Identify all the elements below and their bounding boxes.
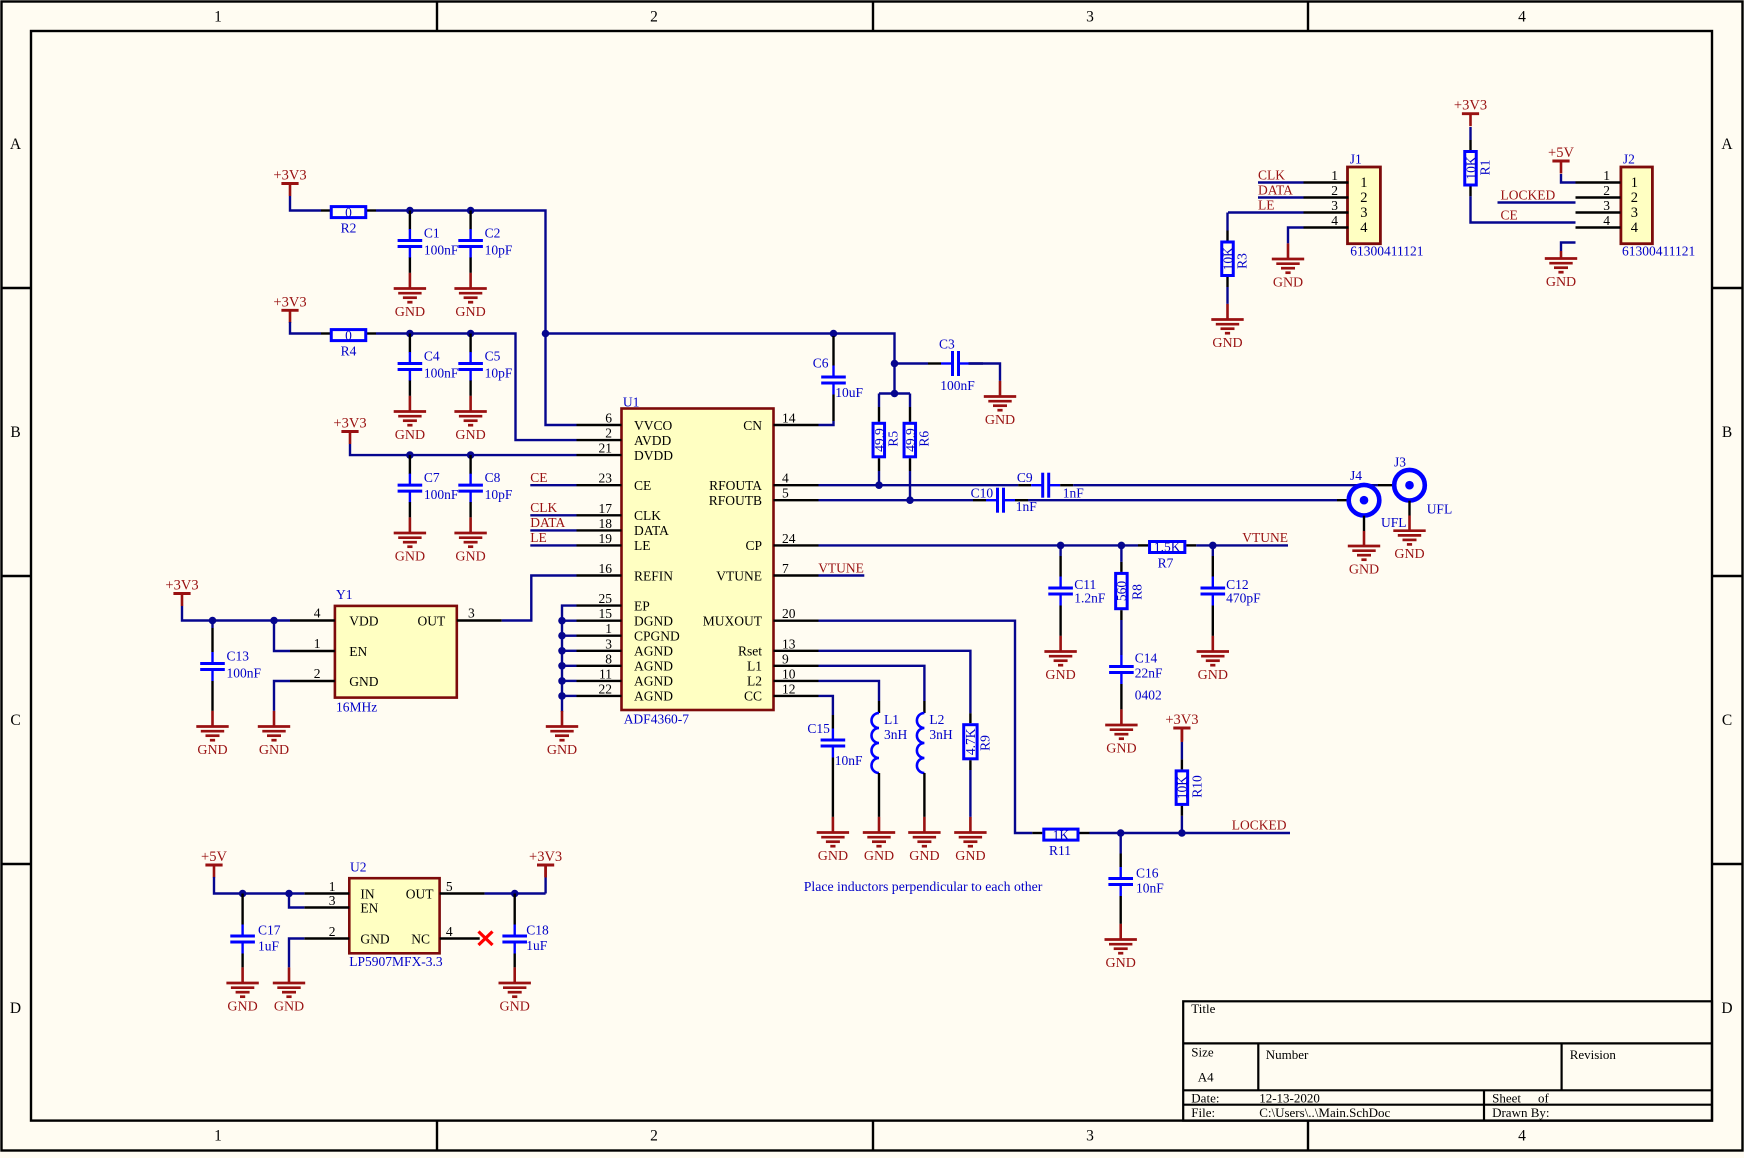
svg-text:10K: 10K bbox=[1220, 247, 1235, 271]
svg-text:11: 11 bbox=[599, 666, 612, 681]
svg-text:GND: GND bbox=[455, 549, 485, 564]
svg-text:File:: File: bbox=[1191, 1105, 1215, 1120]
svg-text:CP: CP bbox=[745, 538, 762, 553]
svg-text:10K: 10K bbox=[1463, 156, 1478, 180]
svg-text:4: 4 bbox=[446, 924, 453, 939]
svg-text:A4: A4 bbox=[1198, 1070, 1214, 1085]
svg-text:C4: C4 bbox=[424, 349, 440, 364]
svg-text:GND: GND bbox=[349, 674, 378, 689]
svg-text:9: 9 bbox=[782, 651, 789, 666]
svg-text:100nF: 100nF bbox=[424, 366, 459, 381]
svg-text:J2: J2 bbox=[1623, 152, 1635, 167]
svg-text:C5: C5 bbox=[485, 349, 501, 364]
svg-text:GND: GND bbox=[985, 413, 1015, 428]
svg-text:1nF: 1nF bbox=[1063, 485, 1085, 500]
svg-text:GND: GND bbox=[1106, 956, 1136, 971]
svg-text:2: 2 bbox=[1360, 190, 1367, 206]
svg-text:1: 1 bbox=[1331, 168, 1338, 183]
svg-text:C: C bbox=[1722, 712, 1732, 729]
svg-text:DGND: DGND bbox=[634, 614, 673, 629]
svg-text:12-13-2020: 12-13-2020 bbox=[1259, 1091, 1320, 1106]
svg-text:J1: J1 bbox=[1350, 152, 1362, 167]
svg-text:R11: R11 bbox=[1049, 843, 1071, 858]
svg-text:C1: C1 bbox=[424, 226, 440, 241]
svg-text:R1: R1 bbox=[1478, 160, 1493, 176]
svg-text:1.5K: 1.5K bbox=[1154, 540, 1181, 555]
svg-text:18: 18 bbox=[599, 516, 613, 531]
svg-text:C14: C14 bbox=[1135, 651, 1158, 666]
svg-text:AGND: AGND bbox=[634, 659, 673, 674]
svg-text:4: 4 bbox=[1603, 213, 1610, 228]
svg-text:GND: GND bbox=[455, 305, 485, 320]
svg-text:12: 12 bbox=[782, 681, 796, 696]
svg-text:2: 2 bbox=[329, 924, 336, 939]
svg-text:560: 560 bbox=[1114, 581, 1129, 602]
svg-text:LE: LE bbox=[530, 530, 547, 545]
svg-text:VTUNE: VTUNE bbox=[716, 568, 762, 583]
svg-text:3nH: 3nH bbox=[884, 727, 908, 742]
svg-text:D: D bbox=[1721, 1000, 1732, 1017]
svg-text:L2: L2 bbox=[929, 712, 944, 727]
svg-text:6: 6 bbox=[605, 411, 612, 426]
svg-text:GND: GND bbox=[1045, 668, 1075, 683]
svg-text:VVCO: VVCO bbox=[634, 418, 673, 433]
svg-text:NC: NC bbox=[411, 931, 430, 946]
svg-text:R5: R5 bbox=[886, 431, 901, 447]
svg-text:CE: CE bbox=[530, 470, 547, 485]
svg-text:5: 5 bbox=[782, 486, 789, 501]
svg-text:Revision: Revision bbox=[1570, 1047, 1617, 1062]
svg-text:100nF: 100nF bbox=[227, 666, 262, 681]
svg-text:100nF: 100nF bbox=[940, 378, 975, 393]
svg-text:4: 4 bbox=[1360, 220, 1368, 236]
svg-text:LOCKED: LOCKED bbox=[1501, 187, 1556, 202]
svg-text:GND: GND bbox=[864, 849, 894, 864]
svg-text:4: 4 bbox=[1518, 1128, 1526, 1145]
svg-text:GND: GND bbox=[227, 999, 257, 1014]
svg-text:R9: R9 bbox=[978, 735, 993, 751]
svg-text:GND: GND bbox=[909, 849, 939, 864]
svg-text:22nF: 22nF bbox=[1135, 666, 1163, 681]
svg-text:GND: GND bbox=[395, 549, 425, 564]
svg-text:AGND: AGND bbox=[634, 644, 673, 659]
svg-text:C: C bbox=[10, 712, 20, 729]
svg-text:3: 3 bbox=[1631, 205, 1638, 221]
svg-text:CLK: CLK bbox=[634, 508, 661, 523]
svg-text:CE: CE bbox=[634, 478, 651, 493]
svg-text:10nF: 10nF bbox=[835, 753, 863, 768]
svg-text:CC: CC bbox=[744, 689, 762, 704]
svg-text:MUXOUT: MUXOUT bbox=[703, 614, 763, 629]
svg-text:3: 3 bbox=[1086, 9, 1094, 26]
svg-text:C6: C6 bbox=[813, 356, 829, 371]
svg-text:1: 1 bbox=[214, 9, 222, 26]
svg-text:LE: LE bbox=[634, 538, 651, 553]
svg-text:AVDD: AVDD bbox=[634, 433, 672, 448]
svg-text:3: 3 bbox=[605, 636, 612, 651]
svg-text:B: B bbox=[10, 424, 20, 441]
svg-text:+3V3: +3V3 bbox=[165, 578, 198, 594]
svg-text:Size: Size bbox=[1191, 1045, 1214, 1060]
svg-text:CPGND: CPGND bbox=[634, 629, 680, 644]
svg-text:GND: GND bbox=[1106, 741, 1136, 756]
svg-text:Sheet: Sheet bbox=[1492, 1091, 1521, 1106]
svg-text:2: 2 bbox=[1603, 183, 1610, 198]
svg-text:19: 19 bbox=[599, 531, 613, 546]
svg-text:16MHz: 16MHz bbox=[336, 700, 377, 715]
svg-text:GND: GND bbox=[818, 849, 848, 864]
svg-text:+3V3: +3V3 bbox=[273, 294, 306, 310]
svg-text:B: B bbox=[1722, 424, 1732, 441]
svg-text:Y1: Y1 bbox=[336, 587, 353, 602]
svg-text:8: 8 bbox=[605, 651, 612, 666]
svg-text:1uF: 1uF bbox=[526, 938, 548, 953]
svg-text:100nF: 100nF bbox=[424, 487, 459, 502]
svg-text:GND: GND bbox=[395, 305, 425, 320]
svg-text:Number: Number bbox=[1266, 1047, 1309, 1062]
svg-text:LE: LE bbox=[1258, 197, 1275, 212]
svg-text:GND: GND bbox=[259, 743, 289, 758]
svg-text:4.7K: 4.7K bbox=[963, 728, 978, 755]
svg-text:C9: C9 bbox=[1017, 470, 1033, 485]
svg-text:VTUNE: VTUNE bbox=[818, 560, 864, 575]
svg-text:+3V3: +3V3 bbox=[1165, 712, 1198, 728]
svg-text:20: 20 bbox=[782, 606, 796, 621]
svg-text:10pF: 10pF bbox=[485, 366, 513, 381]
svg-text:R3: R3 bbox=[1235, 253, 1250, 269]
svg-text:C8: C8 bbox=[485, 470, 501, 485]
svg-text:2: 2 bbox=[314, 666, 321, 681]
svg-text:+5V: +5V bbox=[1548, 145, 1574, 161]
svg-text:EN: EN bbox=[360, 900, 378, 915]
svg-text:DATA: DATA bbox=[1258, 182, 1293, 197]
svg-text:21: 21 bbox=[599, 441, 613, 456]
svg-text:R10: R10 bbox=[1190, 775, 1205, 798]
svg-text:C7: C7 bbox=[424, 470, 440, 485]
svg-text:GND: GND bbox=[1546, 275, 1576, 290]
svg-text:10nF: 10nF bbox=[1136, 881, 1164, 896]
svg-text:16: 16 bbox=[599, 561, 613, 576]
svg-text:U2: U2 bbox=[350, 860, 367, 875]
svg-text:0: 0 bbox=[345, 328, 352, 343]
svg-text:A: A bbox=[10, 136, 22, 153]
svg-text:1nF: 1nF bbox=[1016, 499, 1037, 514]
svg-text:61300411121: 61300411121 bbox=[1622, 244, 1695, 259]
svg-text:DATA: DATA bbox=[530, 515, 565, 530]
svg-text:3: 3 bbox=[1331, 198, 1338, 213]
svg-text:IN: IN bbox=[360, 886, 374, 901]
svg-text:1K: 1K bbox=[1053, 827, 1070, 842]
svg-text:14: 14 bbox=[782, 411, 796, 426]
svg-text:GND: GND bbox=[360, 931, 389, 946]
svg-text:RFOUTA: RFOUTA bbox=[709, 478, 762, 493]
svg-text:Place inductors perpendicular: Place inductors perpendicular to each ot… bbox=[804, 879, 1043, 894]
svg-text:C10: C10 bbox=[971, 485, 994, 500]
svg-text:LOCKED: LOCKED bbox=[1232, 818, 1287, 833]
svg-text:RFOUTB: RFOUTB bbox=[709, 493, 762, 508]
svg-text:GND: GND bbox=[197, 743, 227, 758]
svg-text:VDD: VDD bbox=[349, 613, 378, 628]
svg-text:R6: R6 bbox=[917, 431, 932, 447]
svg-text:+3V3: +3V3 bbox=[273, 168, 306, 184]
svg-text:GND: GND bbox=[274, 999, 304, 1014]
svg-text:4: 4 bbox=[1518, 9, 1526, 26]
svg-text:1: 1 bbox=[329, 879, 336, 894]
svg-text:D: D bbox=[10, 1000, 21, 1017]
svg-text:4: 4 bbox=[1331, 213, 1338, 228]
svg-text:L1: L1 bbox=[747, 659, 762, 674]
svg-text:GND: GND bbox=[1212, 336, 1242, 351]
svg-text:15: 15 bbox=[599, 606, 613, 621]
svg-text:10K: 10K bbox=[1175, 776, 1190, 800]
svg-text:10: 10 bbox=[782, 666, 796, 681]
svg-text:3nH: 3nH bbox=[929, 727, 953, 742]
svg-text:100nF: 100nF bbox=[424, 243, 459, 258]
svg-text:1: 1 bbox=[1360, 175, 1367, 191]
svg-text:Rset: Rset bbox=[738, 644, 762, 659]
svg-text:1: 1 bbox=[214, 1128, 222, 1145]
svg-text:1: 1 bbox=[1603, 168, 1610, 183]
svg-text:3: 3 bbox=[1603, 198, 1610, 213]
svg-text:4: 4 bbox=[314, 606, 321, 621]
svg-text:25: 25 bbox=[599, 591, 613, 606]
svg-text:R4: R4 bbox=[341, 343, 357, 358]
svg-text:3: 3 bbox=[1360, 205, 1367, 221]
svg-text:+3V3: +3V3 bbox=[333, 416, 366, 432]
svg-text:+3V3: +3V3 bbox=[1454, 98, 1487, 114]
svg-text:AGND: AGND bbox=[634, 689, 673, 704]
svg-text:C16: C16 bbox=[1136, 866, 1159, 881]
svg-text:CLK: CLK bbox=[1258, 167, 1285, 182]
svg-text:2: 2 bbox=[650, 9, 658, 26]
svg-text:3: 3 bbox=[468, 606, 475, 621]
svg-text:ADF4360-7: ADF4360-7 bbox=[624, 712, 690, 727]
svg-text:C17: C17 bbox=[258, 923, 281, 938]
svg-text:C:\Users\..\Main.SchDoc: C:\Users\..\Main.SchDoc bbox=[1259, 1105, 1390, 1120]
svg-text:3: 3 bbox=[329, 893, 336, 908]
svg-text:OUT: OUT bbox=[418, 613, 446, 628]
svg-text:61300411121: 61300411121 bbox=[1350, 244, 1423, 259]
svg-text:DVDD: DVDD bbox=[634, 448, 673, 463]
svg-text:C2: C2 bbox=[485, 226, 501, 241]
svg-text:10pF: 10pF bbox=[485, 487, 513, 502]
svg-text:23: 23 bbox=[599, 471, 613, 486]
svg-text:GND: GND bbox=[1198, 668, 1228, 683]
svg-text:UFL: UFL bbox=[1427, 502, 1453, 517]
svg-text:L2: L2 bbox=[747, 674, 762, 689]
svg-text:REFIN: REFIN bbox=[634, 568, 673, 583]
svg-text:VTUNE: VTUNE bbox=[1242, 530, 1288, 545]
svg-text:4: 4 bbox=[1631, 220, 1639, 236]
svg-text:DATA: DATA bbox=[634, 523, 669, 538]
svg-text:17: 17 bbox=[599, 501, 613, 516]
svg-text:0402: 0402 bbox=[1135, 688, 1162, 703]
svg-text:1.2nF: 1.2nF bbox=[1074, 591, 1106, 606]
svg-text:GND: GND bbox=[1394, 547, 1424, 562]
svg-text:L1: L1 bbox=[884, 712, 899, 727]
svg-text:LP5907MFX-3.3: LP5907MFX-3.3 bbox=[349, 954, 443, 969]
svg-text:Drawn By:: Drawn By: bbox=[1492, 1105, 1549, 1120]
svg-text:U1: U1 bbox=[623, 395, 640, 410]
svg-text:GND: GND bbox=[1273, 275, 1303, 290]
svg-text:J4: J4 bbox=[1350, 468, 1362, 483]
svg-text:UFL: UFL bbox=[1381, 515, 1407, 530]
svg-text:OUT: OUT bbox=[406, 886, 434, 901]
svg-text:2: 2 bbox=[1331, 183, 1338, 198]
svg-text:1: 1 bbox=[1631, 175, 1638, 191]
svg-text:C15: C15 bbox=[807, 721, 830, 736]
svg-text:GND: GND bbox=[455, 428, 485, 443]
svg-text:EN: EN bbox=[349, 644, 367, 659]
svg-text:10uF: 10uF bbox=[835, 385, 863, 400]
svg-text:3: 3 bbox=[1086, 1128, 1094, 1145]
svg-text:1: 1 bbox=[314, 636, 321, 651]
svg-text:1uF: 1uF bbox=[258, 938, 280, 953]
svg-text:470pF: 470pF bbox=[1226, 591, 1261, 606]
svg-text:7: 7 bbox=[782, 561, 789, 576]
svg-text:C3: C3 bbox=[939, 337, 955, 352]
svg-text:10pF: 10pF bbox=[485, 243, 513, 258]
svg-text:C18: C18 bbox=[526, 923, 549, 938]
svg-text:J3: J3 bbox=[1394, 455, 1406, 470]
svg-text:CLK: CLK bbox=[530, 500, 557, 515]
svg-text:R2: R2 bbox=[341, 220, 357, 235]
svg-text:GND: GND bbox=[395, 428, 425, 443]
svg-text:GND: GND bbox=[500, 999, 530, 1014]
svg-text:CN: CN bbox=[743, 418, 762, 433]
svg-text:GND: GND bbox=[1349, 562, 1379, 577]
svg-text:22: 22 bbox=[599, 681, 613, 696]
svg-text:0: 0 bbox=[345, 205, 352, 220]
svg-text:2: 2 bbox=[1631, 190, 1638, 206]
svg-text:2: 2 bbox=[650, 1128, 658, 1145]
svg-text:R7: R7 bbox=[1158, 555, 1174, 570]
svg-text:AGND: AGND bbox=[634, 674, 673, 689]
svg-text:CE: CE bbox=[1501, 207, 1518, 222]
svg-text:+3V3: +3V3 bbox=[529, 849, 562, 865]
svg-text:of: of bbox=[1538, 1091, 1550, 1106]
svg-text:EP: EP bbox=[634, 598, 650, 613]
svg-text:GND: GND bbox=[955, 849, 985, 864]
svg-text:5: 5 bbox=[446, 879, 453, 894]
svg-text:13: 13 bbox=[782, 636, 796, 651]
svg-text:2: 2 bbox=[605, 426, 612, 441]
svg-text:Title: Title bbox=[1191, 1001, 1215, 1016]
svg-text:Date:: Date: bbox=[1191, 1091, 1219, 1106]
svg-text:C13: C13 bbox=[227, 649, 250, 664]
svg-text:GND: GND bbox=[547, 743, 577, 758]
svg-text:24: 24 bbox=[782, 531, 796, 546]
svg-text:A: A bbox=[1721, 136, 1733, 153]
svg-text:1: 1 bbox=[605, 621, 612, 636]
svg-text:R8: R8 bbox=[1130, 584, 1145, 600]
svg-text:+5V: +5V bbox=[201, 849, 227, 865]
svg-text:4: 4 bbox=[782, 471, 789, 486]
